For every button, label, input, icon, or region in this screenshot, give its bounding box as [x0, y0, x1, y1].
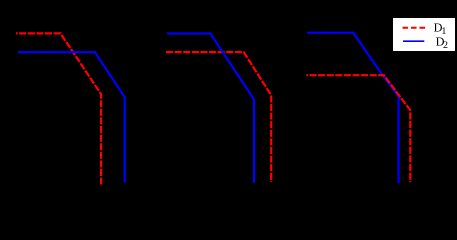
- curve D1 (red dashed), subplot 2: [166, 52, 271, 182]
- curve D1 (red dashed), subplot 1: [16, 33, 101, 184]
- legend sample line D1 (red dashed): [403, 27, 426, 29]
- curve D2 (blue solid), subplot 1: [18, 52, 125, 182]
- legend box: [393, 18, 456, 52]
- legend sample line D2 (blue solid): [403, 40, 424, 42]
- curve D2 (blue solid), subplot 2: [167, 33, 254, 183]
- curve D1 (red dashed), subplot 3: [306, 75, 410, 182]
- svg-text:2: 2: [443, 40, 448, 51]
- curve D2 (blue solid), subplot 3: [307, 33, 399, 184]
